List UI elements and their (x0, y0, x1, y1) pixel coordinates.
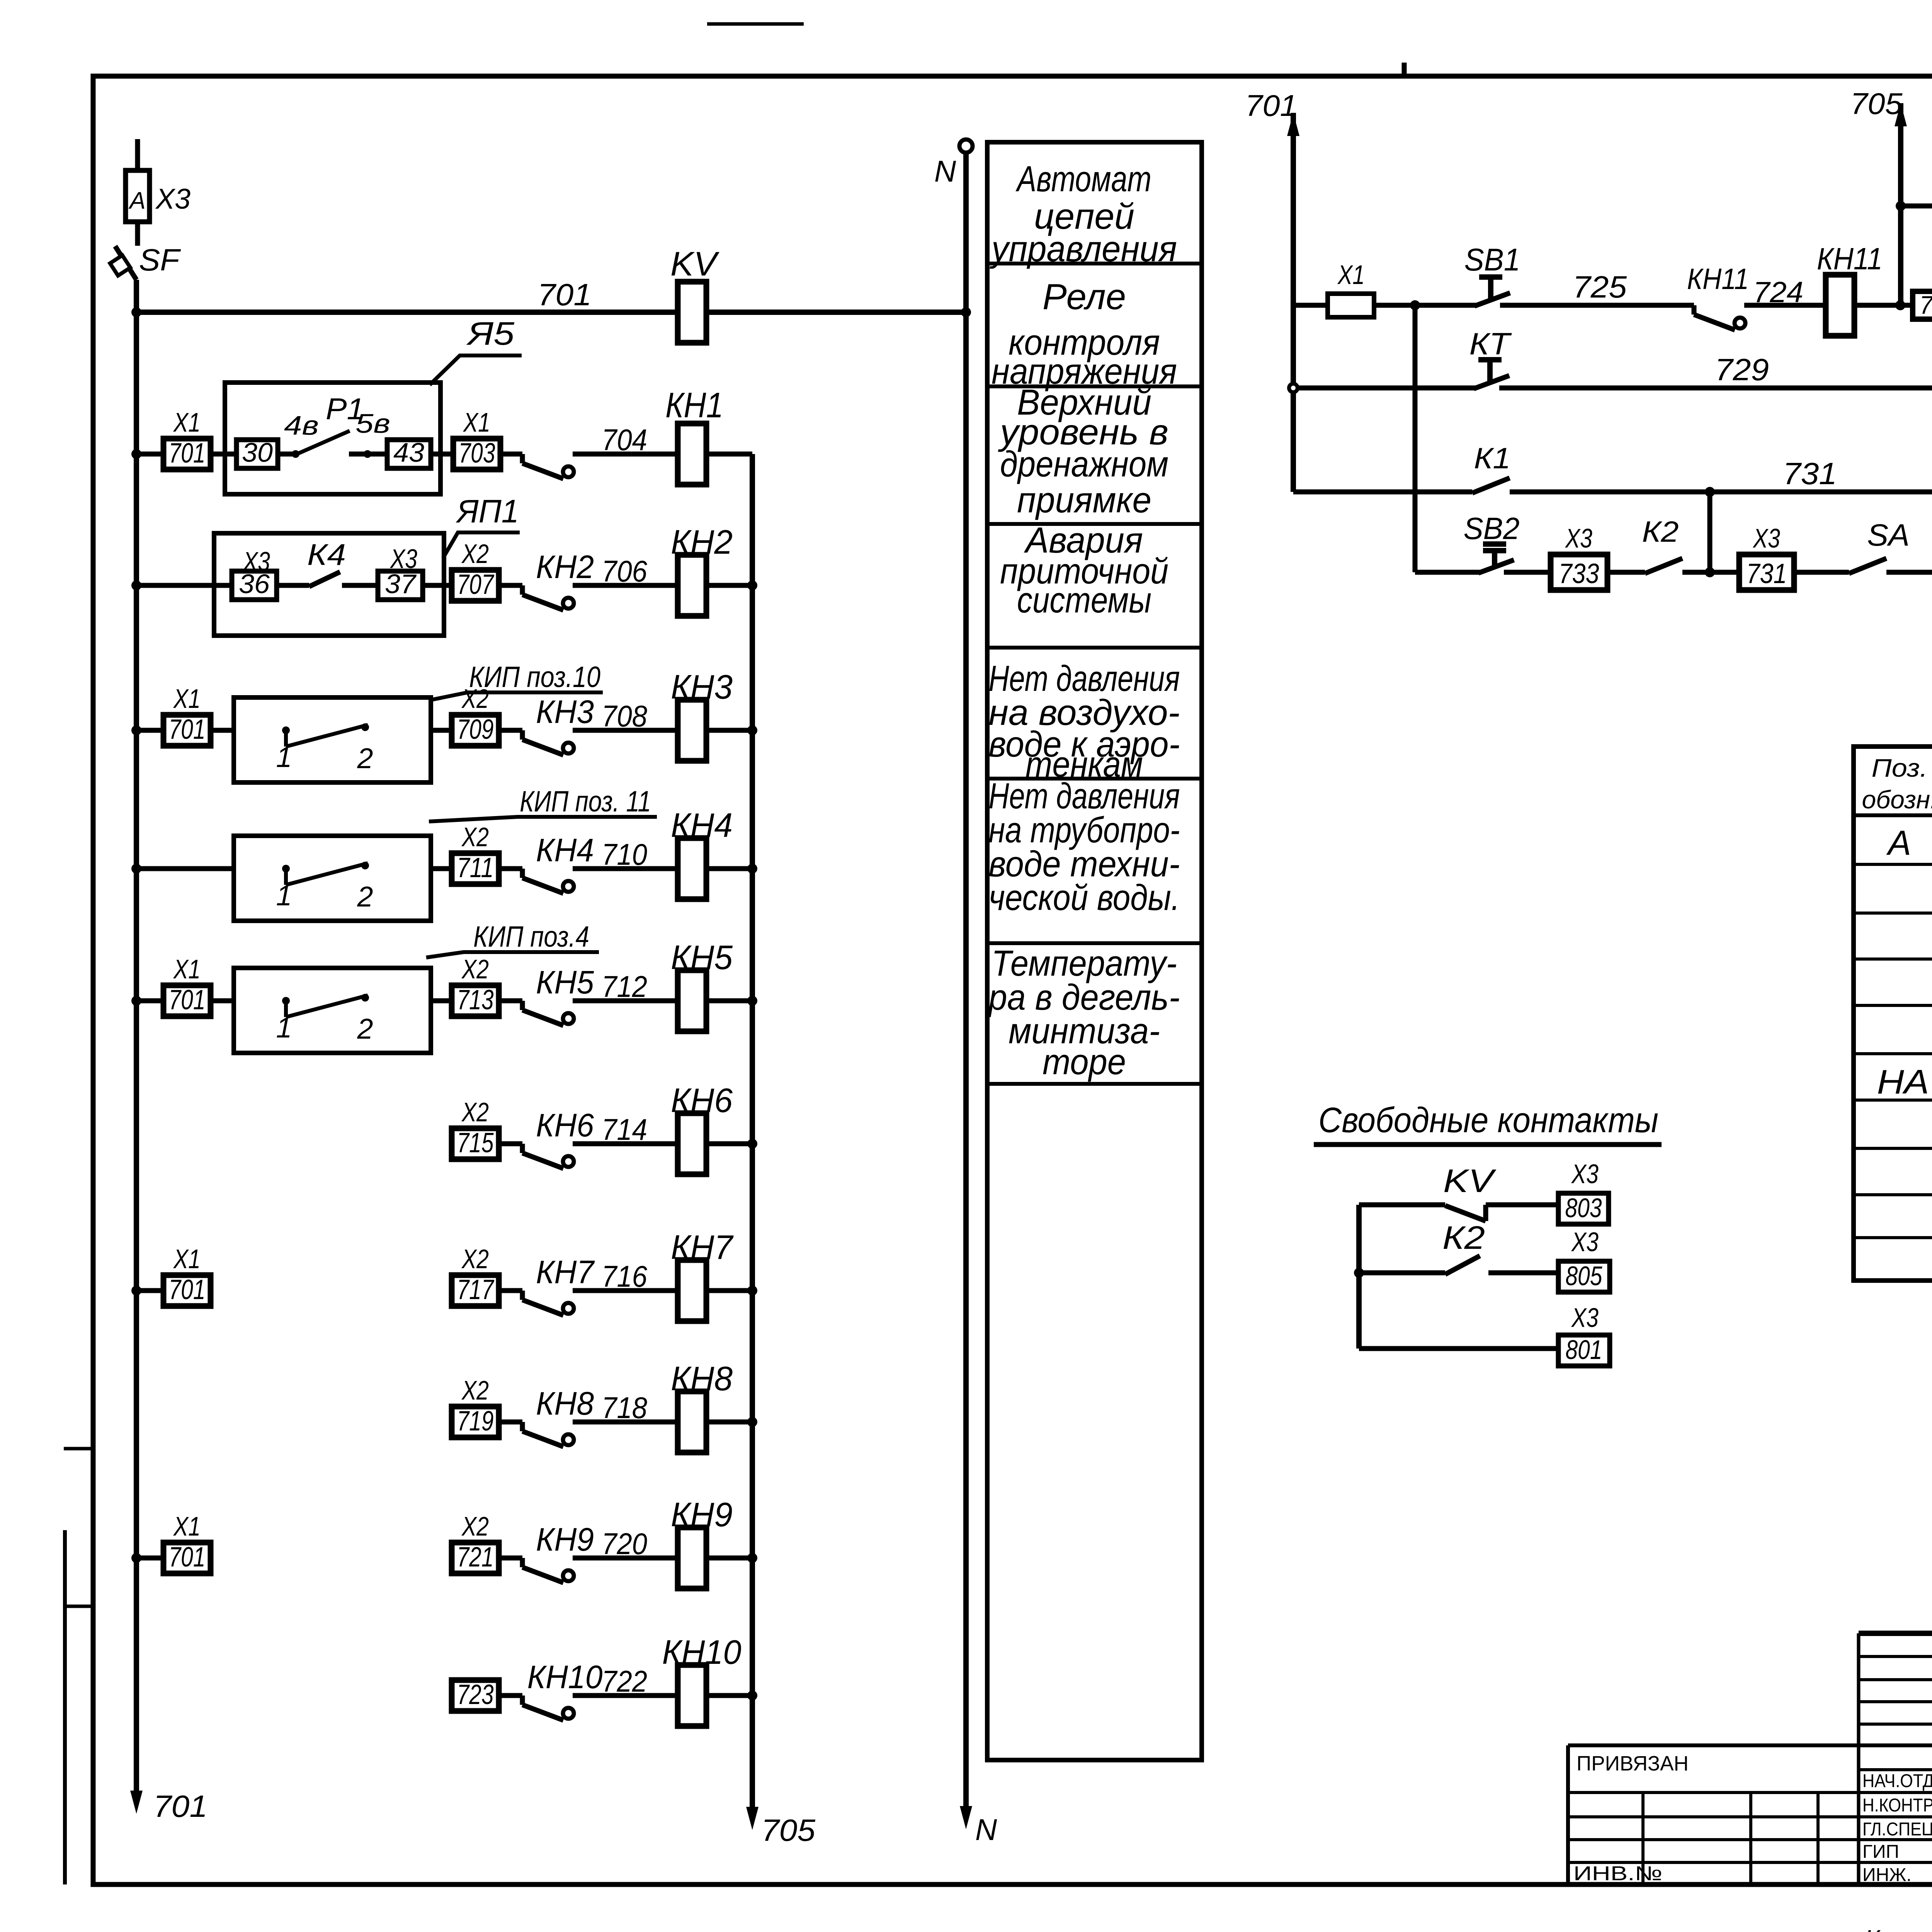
svg-text:ческой воды.: ческой воды. (989, 877, 1180, 918)
svg-text:723: 723 (457, 1679, 494, 1710)
svg-text:714: 714 (602, 1112, 647, 1146)
svg-text:701: 701 (153, 1789, 207, 1823)
svg-text:711: 711 (457, 852, 494, 883)
svg-text:KV: KV (670, 245, 719, 283)
svg-text:КН9: КН9 (536, 1521, 594, 1558)
svg-text:X1: X1 (173, 1511, 201, 1541)
svg-text:30: 30 (242, 437, 273, 468)
svg-text:803: 803 (1565, 1193, 1602, 1223)
svg-text:КН3: КН3 (671, 668, 733, 706)
svg-text:713: 713 (457, 985, 494, 1015)
svg-text:731: 731 (1783, 456, 1837, 491)
svg-text:А: А (1886, 824, 1911, 862)
svg-text:X1: X1 (173, 1244, 201, 1274)
svg-text:X3: X3 (1571, 1303, 1599, 1333)
svg-text:КН1: КН1 (665, 386, 723, 425)
svg-text:N: N (975, 1813, 997, 1847)
svg-text:X2: X2 (461, 539, 489, 569)
svg-text:724: 724 (1753, 276, 1803, 309)
svg-text:КН5: КН5 (536, 964, 594, 1000)
svg-text:701: 701 (169, 985, 206, 1015)
svg-text:X1: X1 (173, 684, 201, 714)
svg-text:КН7: КН7 (536, 1254, 595, 1290)
svg-text:SB2: SB2 (1464, 511, 1520, 546)
svg-text:703: 703 (459, 438, 495, 469)
svg-text:X1: X1 (463, 407, 490, 437)
svg-text:X2: X2 (461, 1511, 489, 1541)
svg-text:КИП поз.10: КИП поз.10 (469, 661, 600, 694)
svg-text:К2: К2 (1442, 1219, 1485, 1256)
svg-text:ГЛ.СПЕЦ: ГЛ.СПЕЦ (1862, 1819, 1932, 1840)
svg-text:Н.КОНТР: Н.КОНТР (1862, 1795, 1932, 1816)
svg-text:705: 705 (1920, 291, 1932, 319)
svg-text:КН3: КН3 (536, 694, 594, 730)
svg-text:системы: системы (1017, 580, 1151, 620)
svg-text:731: 731 (1747, 558, 1787, 589)
svg-text:725: 725 (1573, 270, 1627, 304)
svg-text:КН5: КН5 (671, 938, 733, 976)
svg-text:КН4: КН4 (671, 806, 733, 844)
svg-text:ИНЖ.: ИНЖ. (1862, 1865, 1912, 1885)
svg-text:К2: К2 (1642, 515, 1679, 548)
svg-text:1: 1 (276, 1012, 292, 1044)
svg-text:X2: X2 (461, 1097, 489, 1127)
svg-text:720: 720 (602, 1527, 647, 1561)
svg-text:X3: X3 (389, 544, 417, 574)
svg-text:701: 701 (537, 277, 592, 312)
svg-text:4в: 4в (284, 410, 319, 440)
svg-text:КН6: КН6 (536, 1107, 594, 1143)
svg-text:КН2: КН2 (671, 523, 733, 561)
svg-text:X3: X3 (242, 546, 270, 577)
svg-text:704: 704 (602, 423, 647, 457)
svg-text:709: 709 (457, 714, 494, 745)
svg-text:43: 43 (393, 437, 424, 468)
svg-text:719: 719 (457, 1406, 494, 1437)
svg-text:721: 721 (457, 1542, 494, 1573)
svg-text:КИП поз. 11: КИП поз. 11 (520, 785, 651, 818)
svg-text:1: 1 (276, 741, 292, 773)
svg-text:КИП поз.4: КИП поз.4 (473, 920, 589, 953)
svg-text:КТ: КТ (1469, 327, 1512, 361)
svg-text:КН10: КН10 (662, 1633, 742, 1671)
svg-text:KV: KV (1443, 1163, 1497, 1199)
svg-text:X2: X2 (461, 822, 489, 852)
svg-text:Свободные контакты: Свободные контакты (1318, 1100, 1658, 1140)
svg-text:Р1: Р1 (326, 392, 364, 426)
svg-text:КН9: КН9 (671, 1495, 733, 1534)
svg-text:X3: X3 (155, 183, 190, 215)
svg-text:701: 701 (169, 714, 206, 745)
svg-text:X1: X1 (1337, 260, 1365, 290)
svg-text:701: 701 (169, 1274, 206, 1305)
svg-text:715: 715 (457, 1128, 494, 1158)
svg-text:Автомат: Автомат (1015, 158, 1151, 199)
svg-text:716: 716 (602, 1259, 648, 1293)
svg-text:805: 805 (1566, 1261, 1603, 1291)
svg-text:2: 2 (357, 881, 373, 913)
svg-text:X3: X3 (1752, 523, 1780, 553)
svg-text:дренажном: дренажном (1000, 444, 1168, 484)
svg-text:SF: SF (139, 243, 181, 277)
svg-text:обозн.: обозн. (1862, 785, 1932, 814)
svg-text:710: 710 (602, 837, 647, 871)
svg-text:718: 718 (602, 1391, 647, 1425)
svg-text:КН11: КН11 (1817, 241, 1883, 276)
svg-text:К4: К4 (307, 537, 346, 571)
svg-text:Поз.: Поз. (1872, 753, 1928, 782)
svg-text:X2: X2 (461, 1244, 489, 1274)
svg-text:Я5: Я5 (466, 315, 514, 352)
svg-text:X2: X2 (461, 1375, 489, 1405)
svg-text:701: 701 (1245, 88, 1298, 122)
svg-text:722: 722 (602, 1664, 647, 1698)
svg-text:1: 1 (276, 879, 292, 912)
svg-text:КН8: КН8 (671, 1359, 733, 1398)
svg-text:701: 701 (169, 438, 206, 469)
svg-text:приямке: приямке (1017, 480, 1151, 520)
svg-text:К1: К1 (1474, 442, 1511, 475)
svg-text:торе: торе (1043, 1041, 1126, 1082)
svg-text:НА: НА (1877, 1063, 1929, 1101)
svg-text:SB1: SB1 (1464, 242, 1520, 277)
svg-text:733: 733 (1559, 558, 1599, 589)
svg-text:705: 705 (761, 1813, 816, 1847)
svg-text:Реле: Реле (1043, 276, 1126, 317)
svg-text:717: 717 (457, 1274, 495, 1305)
svg-text:729: 729 (1715, 352, 1769, 387)
svg-text:ЯП1: ЯП1 (456, 493, 519, 529)
svg-text:A: A (128, 187, 145, 214)
svg-text:ИНВ.№: ИНВ.№ (1573, 1862, 1662, 1885)
svg-text:N: N (934, 154, 956, 188)
svg-text:КН6: КН6 (671, 1081, 733, 1119)
svg-text:X2: X2 (461, 954, 489, 984)
svg-text:X3: X3 (1571, 1159, 1599, 1189)
svg-text:Копировал: Алешикова: Копировал: Алешикова (1864, 1923, 1932, 1932)
svg-text:708: 708 (602, 699, 647, 733)
svg-text:2: 2 (357, 1013, 373, 1045)
svg-text:КН10: КН10 (527, 1659, 603, 1695)
svg-text:ГИП: ГИП (1862, 1842, 1899, 1862)
svg-text:НАЧ.ОТД: НАЧ.ОТД (1862, 1771, 1932, 1791)
svg-text:2: 2 (357, 742, 373, 774)
svg-text:706: 706 (602, 554, 648, 588)
svg-text:КН8: КН8 (536, 1385, 594, 1422)
svg-text:X1: X1 (173, 407, 201, 437)
svg-text:801: 801 (1566, 1335, 1602, 1365)
svg-text:X3: X3 (1571, 1227, 1599, 1257)
svg-text:705: 705 (1850, 87, 1903, 121)
svg-text:управления: управления (989, 228, 1177, 269)
svg-text:707: 707 (457, 569, 495, 600)
svg-text:КН4: КН4 (536, 832, 594, 868)
svg-text:SA: SA (1867, 518, 1910, 552)
svg-text:КН7: КН7 (671, 1228, 734, 1266)
svg-text:X3: X3 (1565, 523, 1592, 553)
svg-text:КН11: КН11 (1687, 263, 1749, 296)
svg-text:КН2: КН2 (536, 549, 594, 585)
svg-text:ПРИВЯЗАН: ПРИВЯЗАН (1577, 1752, 1689, 1775)
svg-text:701: 701 (169, 1542, 206, 1573)
svg-text:X1: X1 (173, 954, 201, 984)
svg-text:712: 712 (602, 969, 647, 1003)
